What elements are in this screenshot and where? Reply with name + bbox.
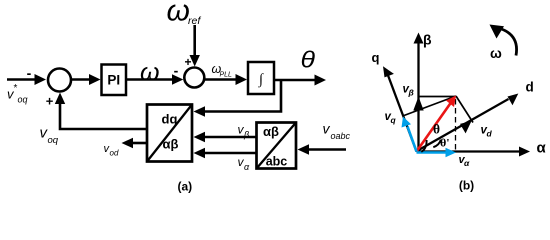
svg-text:α: α: [244, 162, 250, 172]
svg-text:-: -: [27, 65, 32, 81]
svg-text:ω: ω: [140, 59, 159, 87]
svg-text:q: q: [372, 50, 380, 65]
svg-text:v: v: [323, 121, 331, 137]
svg-text:oq: oq: [48, 135, 59, 146]
svg-text:(a): (a): [177, 180, 192, 194]
svg-text:αβ: αβ: [163, 137, 179, 152]
svg-text:dq: dq: [162, 112, 178, 127]
svg-text:θ': θ': [440, 136, 450, 150]
svg-text:oabc: oabc: [331, 131, 351, 141]
svg-text:abc: abc: [266, 155, 288, 169]
svg-text:ref: ref: [188, 15, 201, 27]
svg-text:α: α: [537, 140, 547, 157]
svg-text:d: d: [487, 129, 493, 139]
svg-text:β: β: [408, 88, 414, 98]
svg-text:oq: oq: [18, 95, 28, 105]
svg-text:od: od: [110, 149, 119, 158]
svg-text:(b): (b): [459, 179, 474, 193]
svg-text:q: q: [391, 115, 397, 125]
svg-text:-: -: [174, 63, 179, 79]
svg-text:PI: PI: [107, 73, 120, 88]
svg-text:θ: θ: [433, 122, 440, 137]
svg-text:ω: ω: [490, 45, 502, 61]
svg-text:+: +: [46, 94, 54, 109]
svg-text:*: *: [14, 83, 18, 94]
svg-text:β: β: [243, 130, 249, 140]
svg-text:ω: ω: [167, 0, 190, 28]
svg-text:α: α: [464, 158, 470, 168]
svg-text:αβ: αβ: [263, 124, 279, 139]
svg-text:d: d: [526, 80, 534, 95]
svg-text:β: β: [423, 32, 432, 48]
svg-text:PLL: PLL: [220, 72, 233, 79]
svg-text:θ: θ: [301, 47, 316, 73]
svg-text:+: +: [184, 55, 191, 69]
